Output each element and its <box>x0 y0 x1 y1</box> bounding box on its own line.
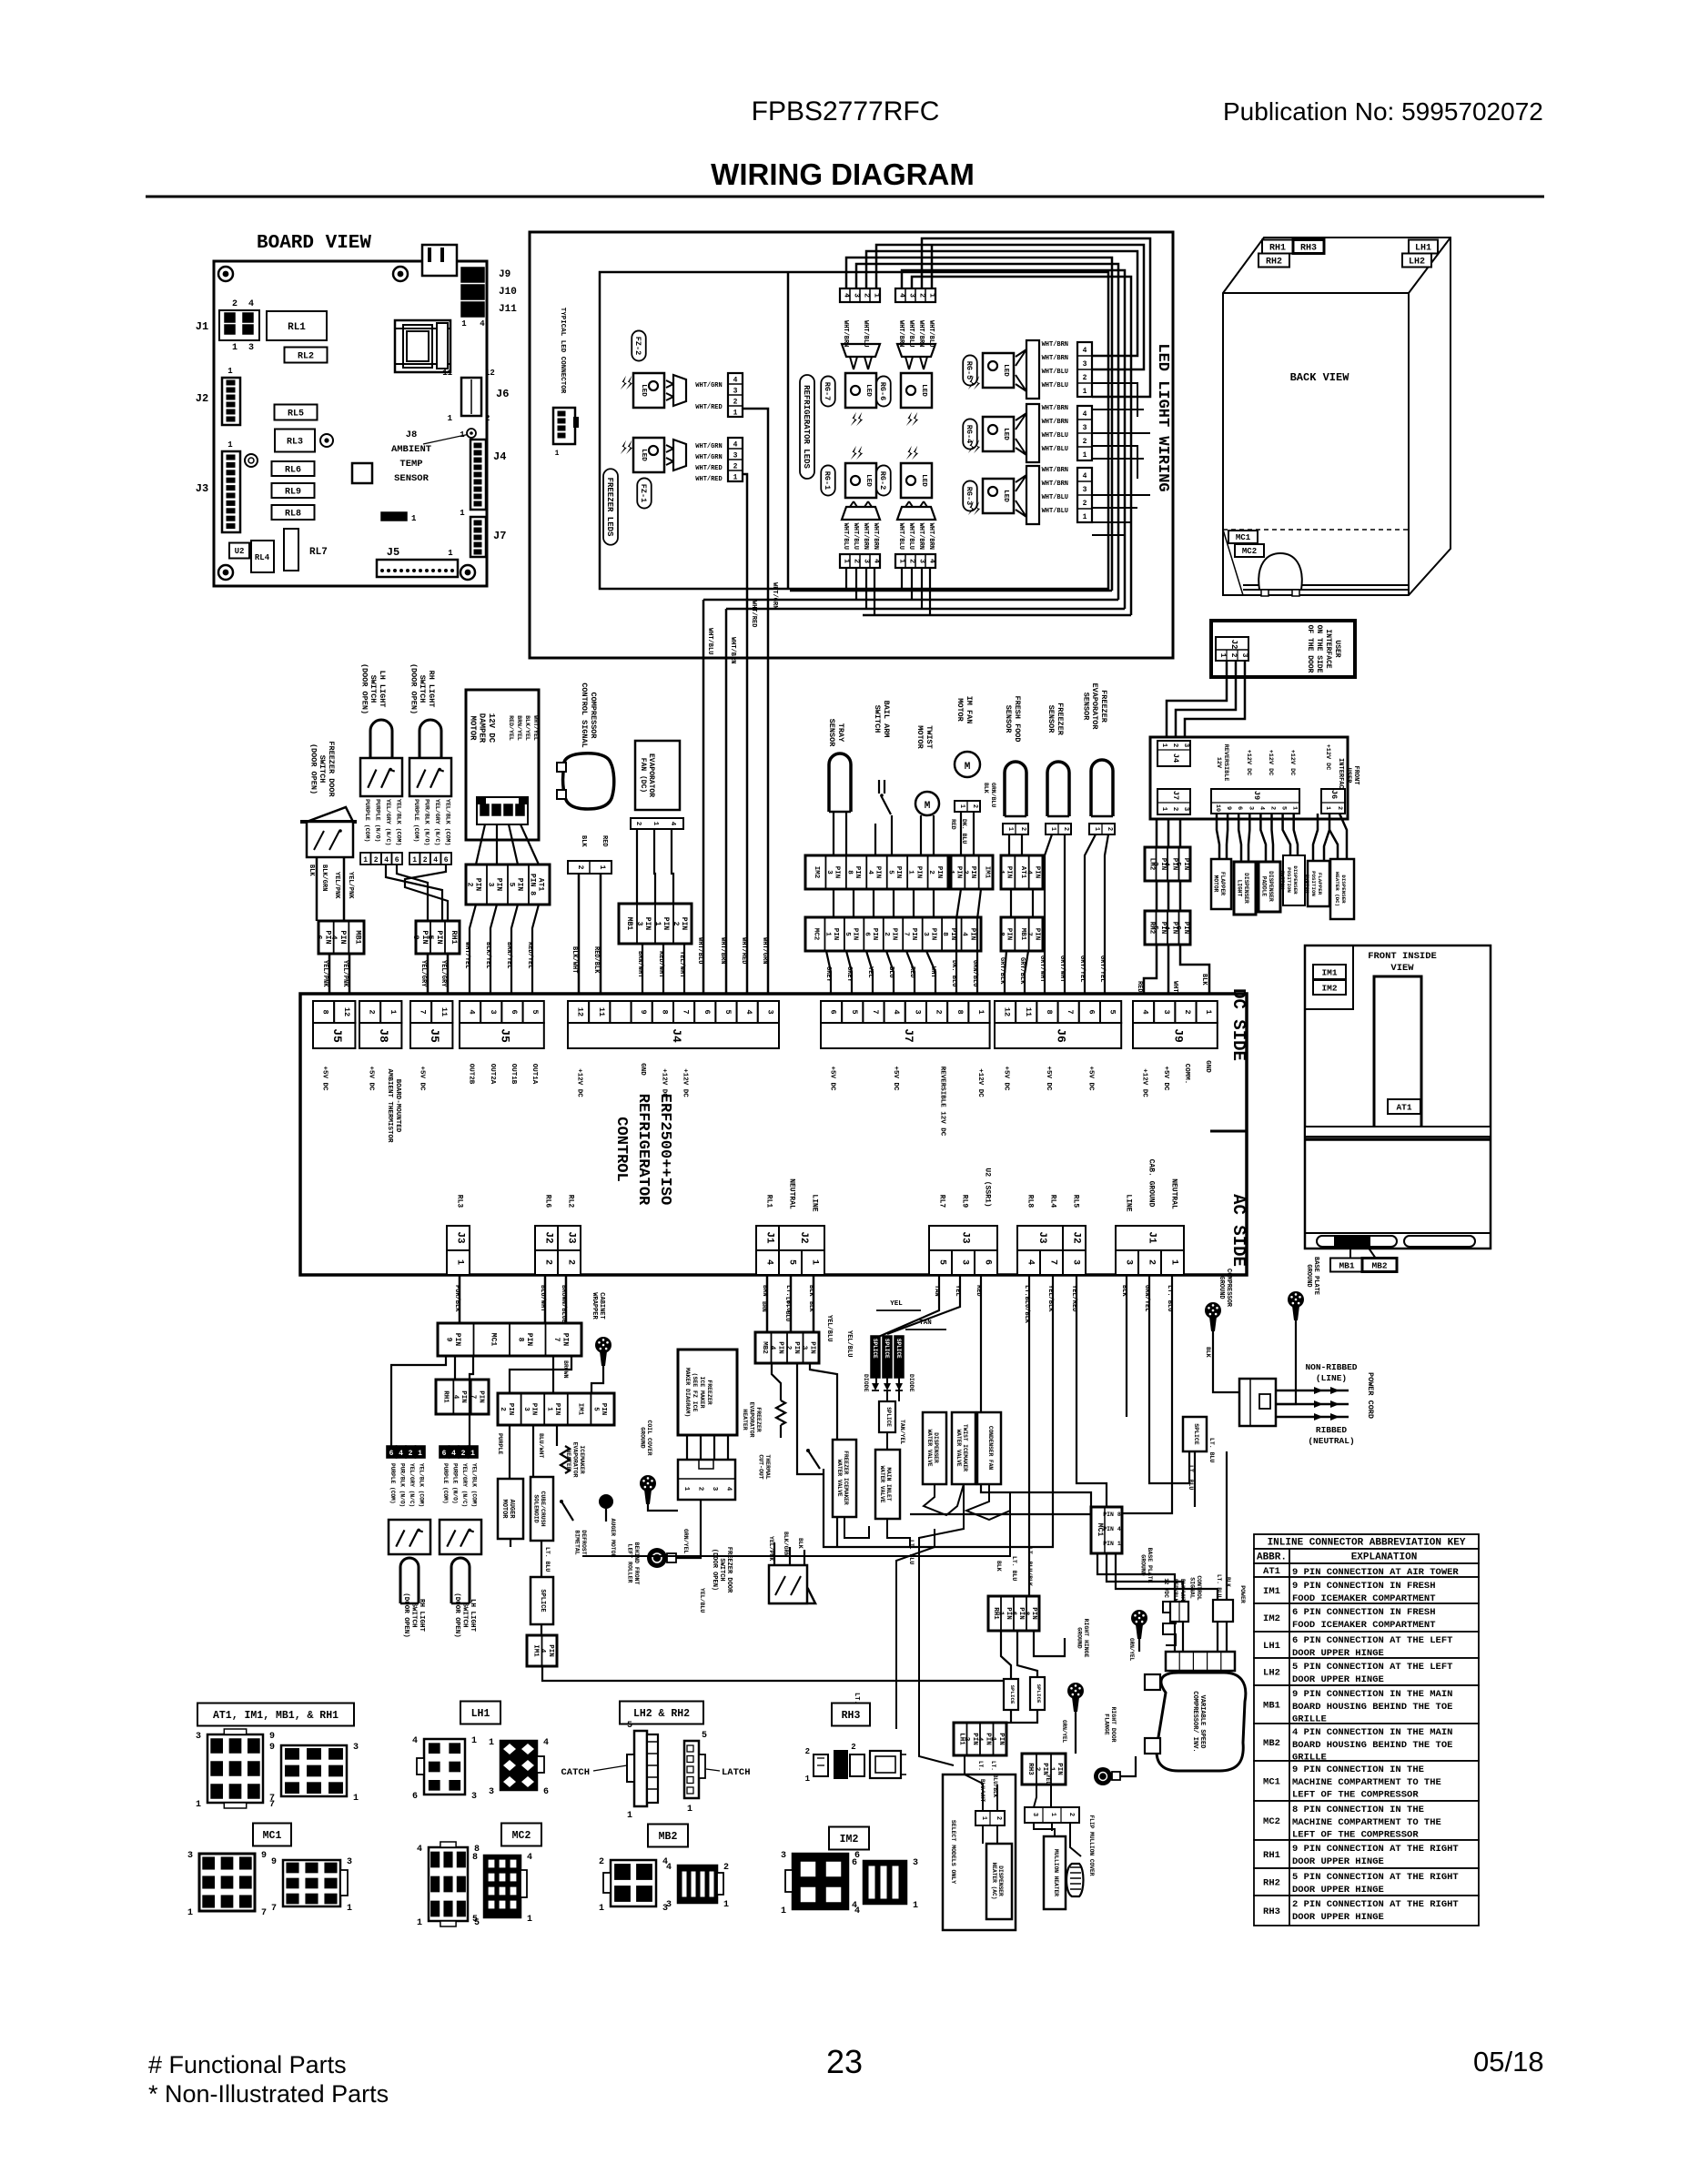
svg-text:COMPRESSOR: COMPRESSOR <box>1225 1269 1232 1308</box>
freezer leds label <box>603 469 618 544</box>
svg-text:MB1: MB1 <box>1339 1260 1354 1270</box>
svg-text:# Functional Parts: # Functional Parts <box>148 2051 347 2078</box>
compressor ground <box>1205 1302 1221 1319</box>
svg-text:PIN: PIN <box>1006 928 1013 941</box>
svg-text:MC1: MC1 <box>263 1830 282 1842</box>
svg-text:WHT/GRN: WHT/GRN <box>761 937 768 964</box>
svg-text:LED: LED <box>920 384 927 397</box>
svg-text:PIN: PIN <box>871 928 878 941</box>
twist motor label <box>915 725 934 749</box>
damper motor connector <box>477 797 528 824</box>
svg-text:RH2: RH2 <box>1263 1878 1280 1889</box>
svg-text:RL3: RL3 <box>287 438 303 448</box>
splice right <box>1183 1417 1207 1451</box>
svg-text:5: 5 <box>531 1009 540 1014</box>
svg-text:11: 11 <box>442 369 452 378</box>
rh1 lower wire labels <box>996 1561 1002 1572</box>
svg-text:2: 2 <box>918 293 926 298</box>
svg-text:MC2: MC2 <box>1263 1816 1280 1827</box>
svg-text:J3: J3 <box>960 1231 971 1244</box>
lh1 lower labels <box>977 1761 984 1797</box>
led inner box <box>600 272 1108 589</box>
svg-text:2: 2 <box>374 856 379 864</box>
rg-2 led <box>876 465 891 495</box>
svg-text:1: 1 <box>187 1908 193 1918</box>
svg-text:WHT/BLU: WHT/BLU <box>907 523 915 550</box>
svg-text:YEL/GRY (N/C): YEL/GRY (N/C) <box>461 1463 468 1507</box>
svg-text:4: 4 <box>898 293 906 298</box>
im1 pin4 wire right <box>541 1624 542 1635</box>
AT1 wires to J5c <box>470 905 476 1001</box>
svg-text:1: 1 <box>1083 451 1087 460</box>
im1 pin4 box <box>527 1635 557 1666</box>
svg-text:YEL/GRY: YEL/GRY <box>440 960 447 987</box>
svg-text:1: 1 <box>1083 388 1087 396</box>
svg-text:1: 1 <box>1083 513 1087 521</box>
svg-text:BASE PLATE: BASE PLATE <box>1312 1257 1319 1295</box>
front ui J6 connector <box>1321 789 1345 814</box>
svg-text:YEL/BLK (COM): YEL/BLK (COM) <box>471 1463 478 1507</box>
mullion heater pins <box>1025 1807 1079 1823</box>
svg-text:1: 1 <box>1093 827 1100 831</box>
svg-text:BLU/WHT: BLU/WHT <box>538 1433 544 1458</box>
dispenser heater dc box <box>1330 859 1354 919</box>
svg-text:1: 1 <box>461 319 467 329</box>
svg-text:WHT/GRN: WHT/GRN <box>695 443 722 450</box>
svg-text:THERMAL: THERMAL <box>764 1454 771 1479</box>
svg-text:11: 11 <box>1024 1007 1033 1016</box>
svg-text:EVAPORATOR: EVAPORATOR <box>572 1441 579 1477</box>
ac connector J3 rl3 <box>447 1226 470 1250</box>
svg-text:1: 1 <box>805 1774 811 1784</box>
front ui reversible 12v label <box>1215 744 1229 782</box>
svg-text:3: 3 <box>489 1787 494 1797</box>
svg-text:6: 6 <box>389 1450 394 1458</box>
svg-text:PURPLE (COM): PURPLE (COM) <box>442 1463 449 1504</box>
svg-text:YEL: YEL <box>1045 1774 1051 1785</box>
pictogram AT1 right <box>281 1745 347 1796</box>
pictogram AT1 IM1 MB1 RH1 title <box>197 1704 354 1726</box>
svg-text:12V: 12V <box>1215 757 1222 769</box>
svg-text:6: 6 <box>1236 806 1243 810</box>
svg-text:2: 2 <box>908 559 916 563</box>
splice small <box>879 1401 895 1432</box>
svg-text:FOOD ICEMAKER COMPARTMENT: FOOD ICEMAKER COMPARTMENT <box>1292 1593 1436 1604</box>
freezer evap sensor <box>1091 760 1113 816</box>
connector J7 on board <box>470 517 486 557</box>
svg-text:PIN 4: PIN 4 <box>1103 1526 1121 1532</box>
freezer evap heater label <box>742 1401 762 1437</box>
im fan motor <box>955 752 980 777</box>
auger motor cap <box>599 1494 613 1509</box>
svg-text:2: 2 <box>1269 806 1277 810</box>
svg-text:4: 4 <box>928 559 936 563</box>
svg-text:SWITCH: SWITCH <box>460 1603 468 1627</box>
svg-text:PIN: PIN <box>561 1333 569 1347</box>
rg-1 connector <box>840 554 880 568</box>
svg-text:BAIL ARM: BAIL ARM <box>882 701 891 738</box>
svg-text:1: 1 <box>907 870 915 875</box>
svg-text:7: 7 <box>269 1794 275 1804</box>
im1 label box <box>1313 965 1346 979</box>
svg-text:2: 2 <box>853 559 861 563</box>
svg-text:HEATER (DC): HEATER (DC) <box>1334 872 1340 906</box>
svg-text:6: 6 <box>983 1259 993 1265</box>
svg-text:FREEZER DOOR: FREEZER DOOR <box>327 741 336 797</box>
svg-text:5: 5 <box>850 1009 859 1014</box>
svg-text:WHT/BRN: WHT/BRN <box>1042 467 1068 474</box>
svg-text:J1: J1 <box>196 320 208 333</box>
svg-text:3: 3 <box>187 1851 193 1861</box>
svg-text:PIN: PIN <box>874 866 882 879</box>
svg-text:MB1: MB1 <box>1263 1701 1280 1712</box>
svg-text:WHT/BRN: WHT/BRN <box>917 523 925 550</box>
tray sensor label <box>827 719 845 748</box>
svg-text:7: 7 <box>682 1009 691 1014</box>
svg-text:LED: LED <box>640 384 647 397</box>
svg-text:IM2: IM2 <box>840 1834 859 1845</box>
svg-text:BLK/GRN: BLK/GRN <box>783 1532 789 1556</box>
svg-text:PIN: PIN <box>525 1333 533 1347</box>
base plate ground lower <box>1131 1610 1147 1626</box>
svg-text:REVERSIBLE: REVERSIBLE <box>1222 744 1229 782</box>
connector AT1 air tower <box>466 864 550 905</box>
svg-text:PIN: PIN <box>477 1390 484 1403</box>
svg-text:RH1: RH1 <box>442 1390 450 1403</box>
relay RL1 <box>267 311 327 340</box>
icemaker evap heater <box>561 1446 570 1473</box>
svg-text:1: 1 <box>928 293 936 298</box>
svg-text:J1: J1 <box>1147 1231 1157 1244</box>
svg-text:+5V DC: +5V DC <box>1087 1066 1094 1091</box>
svg-text:8: 8 <box>321 1009 330 1014</box>
svg-text:5: 5 <box>592 1407 600 1411</box>
svg-text:12: 12 <box>1003 1007 1012 1016</box>
back view RH2 label <box>1258 254 1289 268</box>
svg-text:1: 1 <box>781 1906 786 1916</box>
svg-text:DOOR UPPER HINGE: DOOR UPPER HINGE <box>1292 1856 1384 1867</box>
rh switch contact labels <box>413 799 419 842</box>
svg-text:PURPLE (COM): PURPLE (COM) <box>389 1463 396 1504</box>
svg-text:5: 5 <box>1280 806 1288 810</box>
svg-text:VARIABLE SPEED: VARIABLE SPEED <box>1198 1695 1206 1749</box>
svg-text:PURPLE: PURPLE <box>497 1433 503 1455</box>
svg-text:FREEZER ICEMAKER: FREEZER ICEMAKER <box>843 1451 849 1505</box>
connector MB1 small <box>1001 917 1043 951</box>
svg-text:FRONT INSIDE: FRONT INSIDE <box>1368 951 1437 962</box>
svg-text:CABINET: CABINET <box>598 1292 605 1319</box>
svg-text:RH LIGHT: RH LIGHT <box>418 1599 425 1633</box>
back view dashed line <box>1223 529 1409 531</box>
diode symbols <box>872 1383 879 1390</box>
svg-text:6: 6 <box>412 1792 418 1802</box>
svg-text:LH LIGHT: LH LIGHT <box>469 1599 476 1633</box>
pictogram catch <box>634 1731 647 1806</box>
svg-text:2: 2 <box>883 932 890 936</box>
svg-text:SPLICE: SPLICE <box>872 1339 878 1359</box>
svg-text:RL8: RL8 <box>1026 1195 1035 1208</box>
pictogram MC1 title <box>253 1824 291 1846</box>
pictogram MC1 right <box>283 1860 340 1906</box>
svg-text:NON-RIBBED: NON-RIBBED <box>1305 1362 1357 1372</box>
svg-text:WHT/BRN: WHT/BRN <box>872 523 879 550</box>
svg-text:WHT/BLU: WHT/BLU <box>1042 446 1068 453</box>
compressor control signal label <box>580 682 598 747</box>
svg-text:4: 4 <box>1163 925 1170 930</box>
coil cover ground <box>640 1420 652 1455</box>
user interface on door box <box>1211 621 1355 677</box>
toe grille slots <box>1317 1236 1397 1247</box>
svg-text:2: 2 <box>927 870 935 875</box>
svg-text:WATER VALVE: WATER VALVE <box>926 1430 933 1467</box>
svg-text:2: 2 <box>805 1747 810 1756</box>
svg-text:MULLION HEATER: MULLION HEATER <box>1053 1849 1059 1896</box>
relay RL4 <box>251 541 274 572</box>
mb2 label box <box>1362 1259 1397 1272</box>
dispenser position switch box <box>1283 855 1305 905</box>
svg-text:TYPICAL LED CONNECTOR: TYPICAL LED CONNECTOR <box>559 308 566 394</box>
svg-text:PIN: PIN <box>968 928 975 941</box>
back view compressor area <box>1223 530 1243 595</box>
svg-text:DIODE: DIODE <box>863 1374 869 1392</box>
svg-text:PIN: PIN <box>935 866 943 879</box>
svg-text:2: 2 <box>1336 806 1343 810</box>
pictogram LH1 title <box>460 1702 500 1724</box>
svg-text:J6: J6 <box>1055 1028 1068 1043</box>
svg-text:YEL/BLK (COM): YEL/BLK (COM) <box>419 1463 425 1507</box>
flapper motor box <box>1211 859 1231 909</box>
svg-text:RH1: RH1 <box>1263 1850 1280 1861</box>
svg-text:GRY/BLK: GRY/BLK <box>998 957 1006 985</box>
dc side label <box>1228 988 1248 1061</box>
front inside view box <box>1305 945 1491 1249</box>
rh3 lower connector <box>1022 1754 1066 1785</box>
svg-text:1: 1 <box>448 549 453 558</box>
svg-text:3: 3 <box>711 1487 718 1491</box>
svg-text:4: 4 <box>892 1009 901 1014</box>
svg-text:FOOD ICEMAKER COMPARTMENT: FOOD ICEMAKER COMPARTMENT <box>1292 1620 1436 1631</box>
svg-text:1: 1 <box>1324 806 1331 810</box>
svg-text:PIN: PIN <box>808 1341 815 1354</box>
small ic square <box>352 463 372 483</box>
purple wire labels <box>497 1433 503 1455</box>
cabinet wrapper ground <box>591 1292 605 1319</box>
svg-text:BLK: BLK <box>797 1538 804 1549</box>
svg-text:LH1: LH1 <box>1415 244 1431 254</box>
svg-text:1: 1 <box>545 1407 552 1411</box>
front inside corner box <box>1305 945 1353 1009</box>
rh lower label <box>402 1592 425 1638</box>
wires user interface to front ui <box>1167 661 1227 739</box>
svg-text:6 PIN CONNECTION AT THE LEFT: 6 PIN CONNECTION AT THE LEFT <box>1292 1635 1452 1646</box>
svg-text:+12V DC: +12V DC <box>1141 1068 1148 1097</box>
svg-text:POWER: POWER <box>1239 1585 1246 1603</box>
wires right group down <box>1028 1275 1030 1596</box>
svg-text:3: 3 <box>922 932 929 936</box>
dispenser paddle box <box>1258 862 1280 912</box>
svg-text:WHT/BLU: WHT/BLU <box>897 523 905 550</box>
wire labels above J4 <box>696 937 703 964</box>
svg-text:RL7: RL7 <box>938 1195 946 1208</box>
svg-text:1: 1 <box>1047 1767 1055 1772</box>
svg-text:WHT/BLU: WHT/BLU <box>852 523 859 550</box>
svg-text:8: 8 <box>845 870 853 875</box>
svg-text:4: 4 <box>480 319 485 329</box>
svg-text:1: 1 <box>599 1904 604 1914</box>
svg-text:BROWN: BROWN <box>562 1360 569 1379</box>
svg-text:PADDLE: PADDLE <box>1261 876 1268 897</box>
svg-text:MOTOR: MOTOR <box>955 698 965 722</box>
svg-text:(NEUTRAL): (NEUTRAL) <box>1308 1436 1354 1446</box>
svg-text:1: 1 <box>389 1009 398 1014</box>
svg-text:WHT/BRN: WHT/BRN <box>1042 405 1068 412</box>
freezer led FZ-1 <box>633 438 664 472</box>
tray sensor <box>829 753 851 812</box>
board mounting holes <box>218 267 233 281</box>
grn/yel label mid <box>682 1529 689 1553</box>
fz-2 label <box>632 330 646 360</box>
svg-text:COMM.: COMM. <box>1183 1064 1190 1085</box>
fz-1 connector <box>728 438 743 481</box>
small component 1 <box>381 512 407 521</box>
svg-text:1: 1 <box>958 804 965 808</box>
svg-text:AT1: AT1 <box>1396 1102 1411 1112</box>
svg-text:6: 6 <box>1087 1009 1096 1014</box>
svg-text:1: 1 <box>976 1009 986 1014</box>
back view RH3 label <box>1293 240 1324 254</box>
bail arm switch <box>884 780 885 794</box>
wire labels below ac side <box>453 1285 460 1312</box>
svg-text:1: 1 <box>1049 1813 1056 1816</box>
ice maker wires <box>686 1435 688 1460</box>
freezer evap heater <box>776 1400 785 1425</box>
svg-text:1: 1 <box>411 514 417 523</box>
svg-text:LH1: LH1 <box>1263 1641 1280 1652</box>
svg-text:FLAPPER: FLAPPER <box>1317 873 1323 895</box>
connector J5 left <box>313 1001 334 1023</box>
svg-text:HEATER: HEATER <box>742 1409 748 1431</box>
svg-text:1: 1 <box>417 1918 422 1928</box>
mullion heater box <box>1044 1836 1066 1909</box>
splice pair <box>1004 1679 1018 1710</box>
svg-text:5: 5 <box>472 1915 478 1925</box>
dispenser heater ac box <box>986 1844 1012 1919</box>
svg-text:4: 4 <box>433 856 438 864</box>
pictogram MC1 left <box>199 1854 255 1911</box>
svg-text:LEFT OF THE COMPRESSOR: LEFT OF THE COMPRESSOR <box>1292 1829 1419 1840</box>
svg-text:J7: J7 <box>493 530 506 542</box>
svg-text:2: 2 <box>232 299 238 309</box>
svg-text:BLU: BLU <box>887 966 895 978</box>
svg-text:4: 4 <box>744 1009 753 1014</box>
lh lower label <box>453 1592 476 1638</box>
lh1 lower connector <box>954 1723 1006 1755</box>
freezer sensor pins <box>1046 824 1071 834</box>
svg-text:RL6: RL6 <box>285 466 301 476</box>
svg-text:YEL/PNK: YEL/PNK <box>347 872 354 899</box>
relay RL2 <box>285 348 328 363</box>
rg-6 wire labels <box>897 320 905 347</box>
svg-text:MB2: MB2 <box>761 1341 768 1354</box>
svg-text:BOARD HOUSING BEHIND THE TOE: BOARD HOUSING BEHIND THE TOE <box>1292 1740 1452 1751</box>
svg-text:PIN: PIN <box>997 1733 1005 1745</box>
svg-text:1: 1 <box>555 450 560 458</box>
svg-text:ERF2500++ISO: ERF2500++ISO <box>656 1094 673 1205</box>
splice trio <box>871 1336 880 1378</box>
svg-text:1: 1 <box>682 1487 690 1491</box>
refrigerator control board outline <box>300 994 1247 1275</box>
svg-text:1: 1 <box>996 1612 1004 1616</box>
svg-text:J5: J5 <box>498 1028 511 1043</box>
pictogram latch <box>684 1741 699 1798</box>
svg-text:1: 1 <box>947 870 955 875</box>
svg-text:4: 4 <box>1083 347 1087 355</box>
svg-text:3: 3 <box>489 1009 498 1014</box>
svg-text:SPLICE: SPLICE <box>1193 1423 1199 1445</box>
svg-text:SWITCH: SWITCH <box>1279 871 1286 890</box>
svg-text:DK. BLU: DK. BLU <box>950 960 957 986</box>
svg-text:9: 9 <box>261 1851 267 1861</box>
svg-text:GRN/YEL: GRN/YEL <box>1061 1720 1067 1744</box>
svg-text:TWIST: TWIST <box>925 725 934 749</box>
svg-text:SWITCH: SWITCH <box>718 1558 725 1581</box>
svg-text:+12V DC: +12V DC <box>682 1068 689 1097</box>
svg-text:LED: LED <box>640 449 647 461</box>
svg-text:4: 4 <box>961 932 968 936</box>
svg-text:4: 4 <box>1083 472 1087 480</box>
svg-text:IM2: IM2 <box>1263 1613 1280 1624</box>
svg-text:ON THE SIDE: ON THE SIDE <box>1315 625 1323 673</box>
back view box <box>1223 238 1450 595</box>
svg-text:LEFT OF THE COMPRESSOR: LEFT OF THE COMPRESSOR <box>1292 1789 1419 1800</box>
svg-text:TAN/YEL: TAN/YEL <box>899 1420 905 1444</box>
svg-text:9: 9 <box>639 1009 648 1014</box>
base plate ground right <box>1288 1291 1304 1308</box>
connector RH1 upper <box>416 921 460 954</box>
svg-text:BOARD VIEW: BOARD VIEW <box>257 233 371 254</box>
svg-text:WHT: WHT <box>1171 981 1178 993</box>
connector J1 <box>219 310 259 340</box>
im fan pins <box>955 801 980 812</box>
svg-text:8: 8 <box>1022 1612 1029 1616</box>
svg-text:EVAPORATOR: EVAPORATOR <box>647 753 655 797</box>
svg-text:DAMPER: DAMPER <box>478 713 487 743</box>
fz-2 connector <box>728 373 743 417</box>
svg-text:WHT/BLU: WHT/BLU <box>1042 494 1068 501</box>
svg-text:1: 1 <box>347 1904 352 1914</box>
svg-text:PIN: PIN <box>530 1403 537 1416</box>
connector J8 <box>359 1001 380 1023</box>
svg-text:WHT/BRN: WHT/BRN <box>729 637 736 663</box>
svg-text:2: 2 <box>1083 438 1087 446</box>
main inlet water valve <box>875 1450 900 1519</box>
svg-text:FREEZER: FREEZER <box>755 1407 762 1431</box>
svg-text:IM1: IM1 <box>577 1403 584 1416</box>
svg-text:FREEZER LEDS: FREEZER LEDS <box>605 478 614 537</box>
svg-text:BACK VIEW: BACK VIEW <box>1290 371 1350 384</box>
svg-text:8: 8 <box>997 932 1005 936</box>
svg-text:RIGHT DOOR: RIGHT DOOR <box>1110 1706 1117 1742</box>
IC U2 <box>229 543 249 559</box>
svg-text:6: 6 <box>829 1009 838 1014</box>
svg-text:PIN 1: PIN 1 <box>1103 1541 1121 1547</box>
svg-text:6: 6 <box>702 1009 712 1014</box>
relay RL7 <box>284 529 298 571</box>
svg-text:1: 1 <box>1204 1009 1213 1014</box>
fresh food sensor label <box>1004 695 1022 742</box>
svg-text:GRN/BLU: GRN/BLU <box>990 783 996 807</box>
svg-text:RIBBED: RIBBED <box>1316 1425 1348 1435</box>
